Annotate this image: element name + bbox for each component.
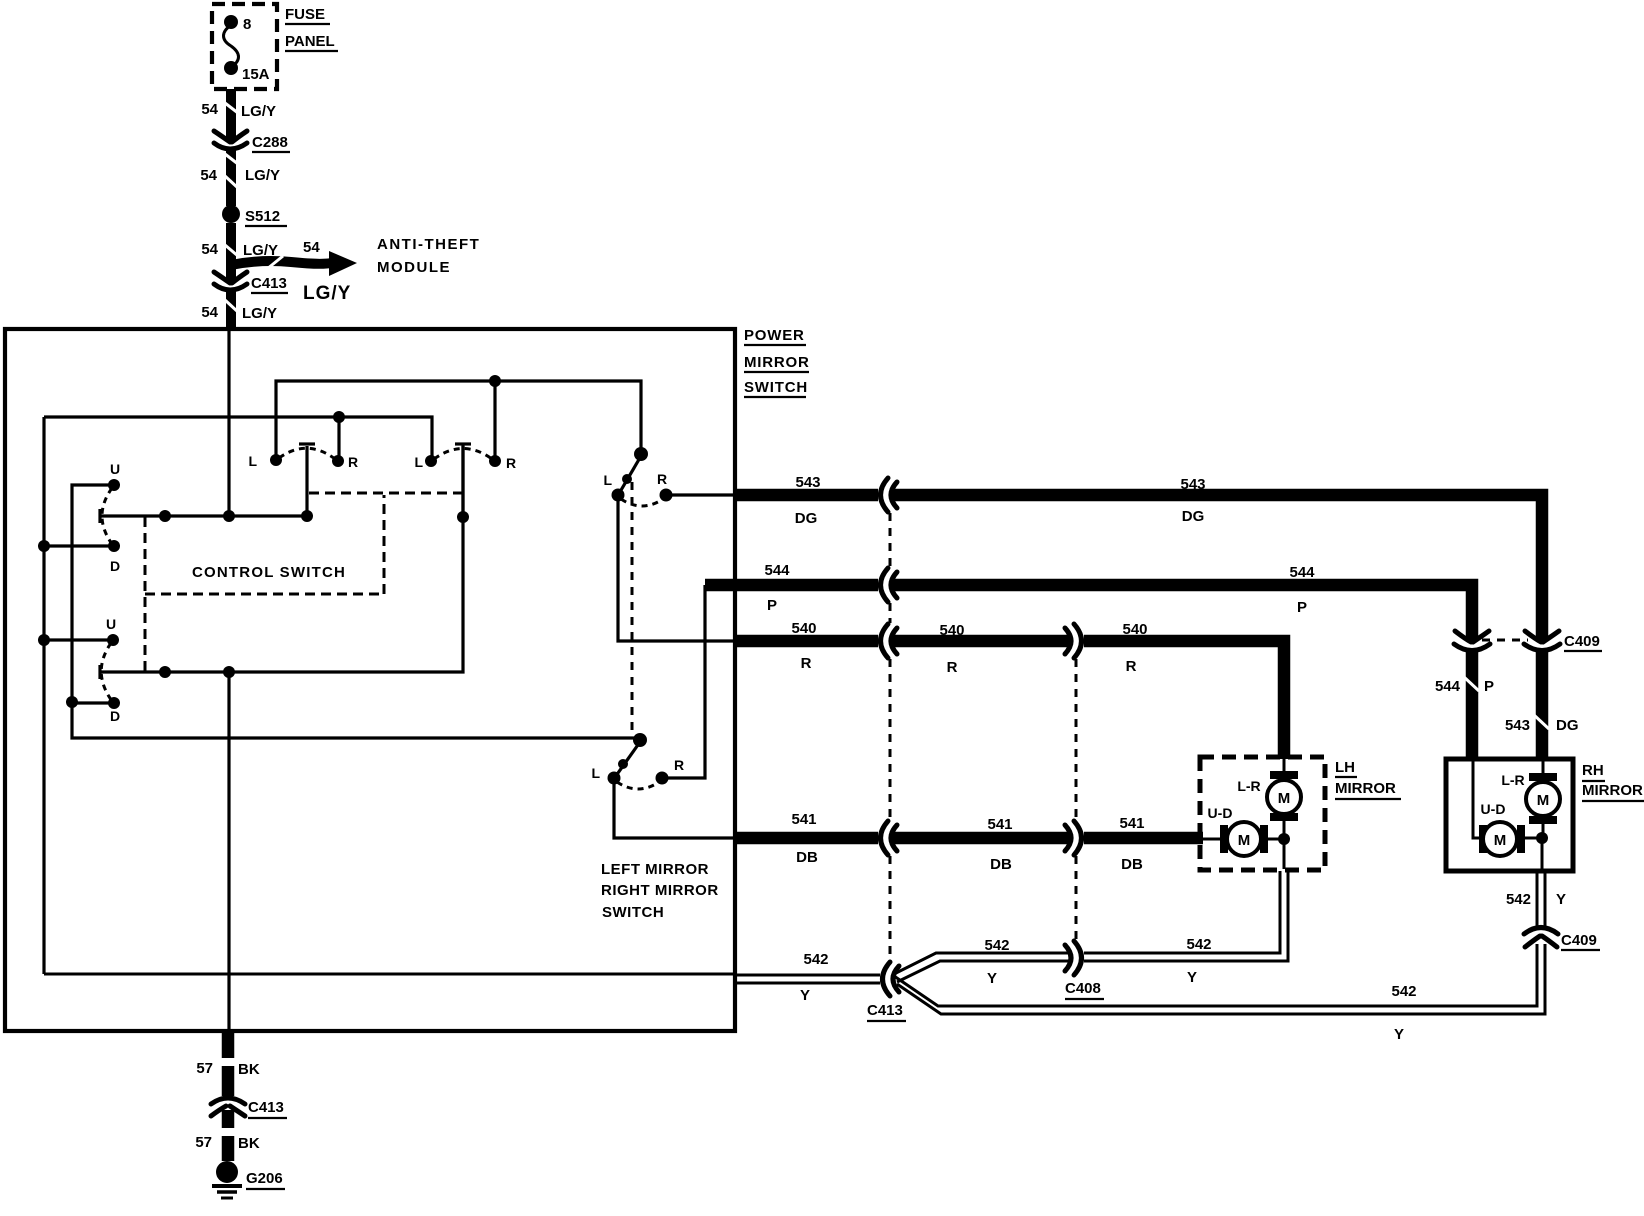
connector C413 dashed boundary [889, 513, 892, 567]
wire 57 BK box to C413 [222, 1031, 235, 1058]
connector C408 on 541 [1065, 821, 1082, 855]
wire selector lower L to 541 exit [614, 782, 736, 838]
svg-text:U-D: U-D [1208, 805, 1233, 821]
connector C413 on 543 [881, 478, 898, 512]
svg-text:544: 544 [1289, 564, 1315, 581]
control switch dashed boundary [144, 517, 147, 672]
svg-text:L: L [591, 765, 600, 781]
svg-text:MIRROR: MIRROR [744, 354, 810, 371]
wire 543 DG switch to C413 [735, 489, 878, 502]
svg-text:L-R: L-R [1237, 778, 1260, 794]
connector C408 dashed boundary [1075, 659, 1078, 820]
wire 542 Y C409 to RH mirror box [1536, 872, 1539, 926]
connector C413 top [214, 272, 247, 290]
node RH mirror junction [1536, 832, 1548, 844]
svg-text:DB: DB [990, 856, 1012, 873]
wire U contact to lower-left link [72, 485, 634, 738]
svg-text:MODULE: MODULE [377, 259, 451, 276]
svg-text:M: M [1494, 832, 1507, 849]
RH mirror box [1446, 759, 1573, 871]
svg-text:541: 541 [1119, 815, 1144, 832]
connector C413 fork on 542 [883, 962, 900, 996]
svg-text:L: L [414, 454, 423, 470]
svg-text:SWITCH: SWITCH [602, 904, 664, 921]
wire 57 BK C413 to G206 [222, 1110, 235, 1128]
svg-text:Y: Y [987, 970, 997, 987]
connector C408 on 542 [1065, 941, 1082, 975]
svg-text:G206: G206 [246, 1170, 283, 1187]
wire 544 P switch to C413 [705, 579, 878, 592]
connector C413 on 541 [881, 821, 898, 855]
svg-text:M: M [1537, 792, 1550, 809]
svg-text:R: R [348, 454, 358, 470]
wire to rocker2 R contact [493, 381, 496, 461]
svg-text:54: 54 [303, 239, 320, 256]
svg-text:543: 543 [795, 474, 820, 491]
svg-text:M: M [1238, 832, 1251, 849]
svg-text:BK: BK [238, 1061, 260, 1078]
svg-text:LG/Y: LG/Y [245, 167, 280, 184]
rocker switch L/R first [270, 454, 282, 466]
svg-text:DB: DB [796, 849, 818, 866]
wire upper cross link [44, 417, 432, 461]
rocker switch L/R second [425, 455, 437, 467]
svg-text:542: 542 [984, 937, 1009, 954]
svg-text:541: 541 [791, 811, 816, 828]
svg-text:U: U [110, 461, 120, 477]
svg-text:S512: S512 [245, 208, 280, 225]
wire top link to selector [276, 381, 641, 460]
wire 54 LG/Y C413 to switch box [226, 291, 236, 331]
LH mirror L-R motor [1283, 759, 1286, 773]
svg-text:8: 8 [243, 16, 251, 33]
selector switch upper (left/right mirror) [634, 447, 648, 461]
wire 543 DG C409 to RH mirror box [1536, 650, 1549, 761]
RH mirror L-R motor [1542, 761, 1545, 775]
svg-text:57: 57 [195, 1134, 212, 1151]
fuse panel box [212, 4, 277, 89]
svg-text:D: D [110, 708, 120, 724]
wire D contact to link [72, 701, 114, 704]
wire 542 Y fork upper branch to C408 [894, 953, 1070, 974]
wire 541 DB C413 to C408 [892, 832, 1070, 845]
node feed junction on upper bus [223, 510, 235, 522]
svg-text:54: 54 [201, 241, 218, 258]
connector C413 on 544 [881, 568, 898, 602]
svg-text:C408: C408 [1065, 980, 1101, 997]
svg-text:Y: Y [1556, 891, 1566, 908]
RH mirror U-D motor feed [1473, 761, 1482, 838]
node link dot [66, 696, 78, 708]
rocker switch U/D upper [108, 479, 120, 491]
splice S512 [222, 205, 240, 223]
connector C413 bottom [211, 1098, 245, 1116]
svg-text:R: R [947, 659, 958, 676]
wire 54 LG/Y C288 to S512 [226, 150, 236, 206]
svg-text:540: 540 [939, 622, 964, 639]
svg-text:POWER: POWER [744, 327, 805, 344]
svg-text:54: 54 [201, 101, 218, 118]
svg-text:542: 542 [803, 951, 828, 968]
node upper bus terminal 1 [159, 510, 171, 522]
svg-text:R: R [506, 455, 516, 471]
svg-text:L-R: L-R [1501, 772, 1524, 788]
svg-text:15A: 15A [242, 66, 270, 83]
node wiper junction on upper bus [301, 510, 313, 522]
power mirror switch box [5, 329, 735, 1031]
svg-text:BK: BK [238, 1135, 260, 1152]
wire 540 R C408 to LH mirror box [1084, 641, 1284, 759]
svg-text:541: 541 [987, 816, 1012, 833]
svg-text:543: 543 [1180, 476, 1205, 493]
wire 541 DB switch to C413 [735, 832, 878, 845]
selector switch lower (left/right mirror) [633, 733, 647, 747]
svg-text:544: 544 [764, 562, 790, 579]
svg-text:540: 540 [1122, 621, 1147, 638]
wire lower common bus [100, 444, 463, 672]
svg-text:542: 542 [1506, 891, 1531, 908]
svg-text:LG/Y: LG/Y [241, 103, 276, 120]
node on rocker wiper riser [457, 511, 469, 523]
connector C408 on 540 [1065, 624, 1082, 658]
connector C413 on 540 [881, 624, 898, 658]
svg-text:LG/Y: LG/Y [242, 305, 277, 322]
svg-text:MIRROR: MIRROR [1582, 782, 1643, 799]
svg-text:D: D [110, 558, 120, 574]
wire 540 R C413 to C408 [892, 635, 1070, 648]
wire selector upper R to 543 exit [666, 493, 735, 496]
svg-text:Y: Y [1187, 969, 1197, 986]
wire 54 LG/Y fuse to C288 [226, 89, 236, 140]
svg-text:C413: C413 [248, 1099, 284, 1116]
wire to rocker1 R contact [337, 417, 340, 461]
node cross link junction [333, 411, 345, 423]
svg-text:DG: DG [1182, 508, 1205, 525]
wire 542 Y C408 to LH mirror box [1084, 871, 1280, 953]
svg-text:FUSE: FUSE [285, 6, 325, 23]
wire 544 P C413 to C409 [892, 585, 1472, 641]
svg-text:P: P [767, 597, 777, 614]
wire U contact to left rail [44, 638, 113, 641]
svg-text:DG: DG [1556, 717, 1579, 734]
svg-text:542: 542 [1391, 983, 1416, 1000]
wire ground feed down [227, 672, 230, 1031]
svg-text:L: L [603, 472, 612, 488]
svg-text:540: 540 [791, 620, 816, 637]
wire 544 P C409 to RH mirror box [1466, 650, 1479, 761]
connector C409 on 543 [1524, 631, 1560, 651]
wire 542 Y switch to C413 fork [735, 974, 880, 977]
svg-text:P: P [1484, 678, 1494, 695]
svg-text:543: 543 [1505, 717, 1530, 734]
svg-text:P: P [1297, 599, 1307, 616]
wire 542 return inside box [44, 973, 735, 976]
svg-text:DB: DB [1121, 856, 1143, 873]
wire selector lower R to 544 exit [662, 585, 705, 778]
svg-text:DG: DG [795, 510, 818, 527]
svg-text:MIRROR: MIRROR [1335, 780, 1396, 797]
svg-text:542: 542 [1186, 936, 1211, 953]
wire 540 R switch to C413 [735, 635, 878, 648]
svg-text:RIGHT MIRROR: RIGHT MIRROR [601, 882, 719, 899]
wire left rail [42, 417, 45, 974]
wire D contact to left rail [44, 544, 114, 547]
node lower bus terminal 1 [159, 666, 171, 678]
svg-text:R: R [801, 655, 812, 672]
wire 54 branch to anti-theft module [231, 261, 331, 265]
svg-text:CONTROL SWITCH: CONTROL SWITCH [192, 564, 346, 581]
svg-text:LEFT MIRROR: LEFT MIRROR [601, 861, 709, 878]
svg-text:R: R [657, 471, 667, 487]
node LH mirror junction [1278, 833, 1290, 845]
svg-text:L: L [248, 453, 257, 469]
svg-text:ANTI-THEFT: ANTI-THEFT [377, 236, 480, 253]
svg-text:54: 54 [201, 304, 218, 321]
svg-text:C409: C409 [1564, 633, 1600, 650]
fuse F1 15A [224, 15, 238, 29]
connector C288 [214, 131, 247, 149]
svg-text:C409: C409 [1561, 932, 1597, 949]
LH mirror U-D motor [1203, 838, 1222, 841]
svg-text:C413: C413 [251, 275, 287, 292]
svg-text:544: 544 [1435, 678, 1461, 695]
svg-text:54: 54 [200, 167, 217, 184]
svg-text:C288: C288 [252, 134, 288, 151]
svg-text:U: U [106, 616, 116, 632]
connector C409 on 542 [1524, 928, 1558, 948]
svg-text:M: M [1278, 790, 1291, 807]
wire 541 DB C408 to LH mirror box [1084, 832, 1203, 845]
svg-text:RH: RH [1582, 762, 1604, 779]
svg-text:PANEL: PANEL [285, 33, 335, 50]
connector C409 dashed pair link [1482, 639, 1528, 642]
LH mirror box [1200, 757, 1325, 870]
ground G206 [216, 1161, 238, 1183]
svg-text:R: R [1126, 658, 1137, 675]
node ground junction on lower bus [223, 666, 235, 678]
wire 543 DG C413 to RH mirror [892, 495, 1542, 641]
selector mechanical link dashed [631, 482, 634, 734]
svg-text:SWITCH: SWITCH [744, 379, 808, 396]
connector C409 on 544 [1454, 631, 1490, 651]
svg-text:LH: LH [1335, 759, 1355, 776]
wire selector upper L to 540 exit [618, 499, 737, 641]
rocker switch U/D lower [107, 634, 119, 646]
svg-text:LG/Y: LG/Y [303, 283, 351, 304]
wire 54 LG/Y S512 to C413 [226, 223, 236, 281]
wire feed 54 into box [227, 331, 230, 516]
wire 542 Y fork lower branch to C409 [894, 944, 1537, 1006]
svg-text:Y: Y [800, 987, 810, 1004]
svg-text:C413: C413 [867, 1002, 903, 1019]
node top link junction [489, 375, 501, 387]
svg-text:57: 57 [196, 1060, 213, 1077]
svg-text:R: R [674, 757, 684, 773]
svg-text:Y: Y [1394, 1026, 1404, 1043]
svg-text:U-D: U-D [1481, 801, 1506, 817]
wire upper common bus [100, 514, 307, 517]
